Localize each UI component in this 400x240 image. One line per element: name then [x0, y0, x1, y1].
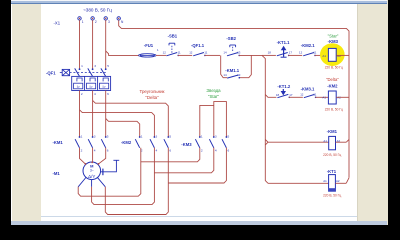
svg-text:3~: 3~: [90, 168, 94, 172]
svg-text:A1: A1: [323, 139, 327, 143]
svg-text:A1: A1: [322, 54, 326, 58]
svg-text:Треугольник: Треугольник: [140, 89, 165, 94]
svg-text:-SB2: -SB2: [226, 36, 236, 41]
svg-text:-X1: -X1: [54, 20, 61, 25]
svg-text:4: 4: [156, 149, 158, 153]
svg-text:Δ/Y: Δ/Y: [88, 174, 95, 179]
svg-text:3: 3: [94, 134, 96, 138]
svg-text:-KM1: -KM1: [53, 140, 64, 145]
svg-text:5: 5: [169, 134, 171, 138]
svg-text:11: 11: [204, 50, 207, 54]
svg-text:220 В, 50 Гц: 220 В, 50 Гц: [325, 108, 343, 112]
svg-text:A1: A1: [322, 96, 326, 100]
svg-text:3: 3: [156, 134, 158, 138]
svg-text:17: 17: [289, 93, 293, 97]
svg-text:12: 12: [189, 50, 193, 54]
svg-text:12: 12: [300, 92, 304, 96]
svg-text:1: 1: [201, 134, 203, 138]
svg-text:-KM3.1: -KM3.1: [301, 87, 315, 92]
svg-text:4: 4: [94, 149, 96, 153]
svg-text:-M1: -M1: [53, 171, 61, 176]
svg-text:5: 5: [228, 134, 230, 138]
svg-text:6: 6: [107, 92, 109, 96]
svg-text:18: 18: [268, 50, 272, 54]
svg-text:-KM2: -KM2: [121, 140, 132, 145]
svg-text:1: 1: [141, 134, 143, 138]
svg-text:1: 1: [82, 20, 84, 24]
svg-text:14: 14: [223, 73, 227, 77]
svg-text:-KM2.1: -KM2.1: [301, 43, 315, 48]
svg-text:-KT1: -KT1: [327, 169, 337, 174]
svg-text:-SB1: -SB1: [168, 34, 178, 39]
svg-text:-QF1: -QF1: [46, 71, 56, 76]
svg-text:-KM3: -KM3: [181, 142, 192, 147]
svg-text:-QF1.1: -QF1.1: [191, 43, 205, 48]
svg-text:12: 12: [299, 50, 303, 54]
svg-text:220 В, 50 Гц: 220 В, 50 Гц: [323, 194, 341, 198]
svg-text:5: 5: [107, 134, 109, 138]
svg-text:"Delta": "Delta": [326, 77, 339, 82]
svg-text:-KT1.2: -KT1.2: [277, 84, 290, 89]
svg-text:I>: I>: [90, 85, 93, 89]
svg-text:"Star": "Star": [328, 33, 339, 38]
svg-text:"Star": "Star": [208, 94, 220, 99]
svg-text:2: 2: [81, 149, 83, 153]
svg-text:N: N: [121, 20, 124, 24]
svg-text:A1: A1: [323, 179, 327, 183]
svg-text:220 В, 50 Гц: 220 В, 50 Гц: [325, 65, 343, 69]
svg-text:3: 3: [215, 134, 217, 138]
svg-text:6: 6: [107, 149, 109, 153]
svg-text:2: 2: [201, 149, 203, 153]
svg-text:3: 3: [94, 64, 96, 68]
svg-text:~380 В, 50 Гц: ~380 В, 50 Гц: [83, 8, 112, 13]
svg-text:-KM3: -KM3: [328, 39, 339, 44]
svg-text:-KM1: -KM1: [327, 129, 338, 134]
svg-text:18: 18: [276, 93, 280, 97]
svg-text:3: 3: [108, 20, 110, 24]
svg-text:1: 1: [157, 48, 159, 52]
svg-text:4: 4: [215, 149, 217, 153]
svg-text:14: 14: [223, 50, 227, 54]
svg-text:12: 12: [163, 50, 167, 54]
svg-text:-KM2: -KM2: [327, 83, 338, 88]
svg-text:1: 1: [81, 134, 83, 138]
svg-text:5: 5: [107, 64, 109, 68]
svg-text:I>: I>: [77, 85, 80, 89]
svg-text:2: 2: [95, 20, 97, 24]
svg-text:6: 6: [228, 149, 230, 153]
svg-text:Звезда: Звезда: [206, 88, 221, 93]
svg-text:"Delta": "Delta": [145, 95, 159, 100]
svg-text:I>: I>: [103, 85, 106, 89]
svg-text:A2: A2: [336, 179, 340, 183]
svg-text:11: 11: [178, 50, 181, 54]
svg-text:6: 6: [169, 149, 171, 153]
svg-text:2: 2: [81, 92, 83, 96]
svg-text:1: 1: [81, 64, 83, 68]
svg-text:-KT1.1: -KT1.1: [277, 40, 290, 45]
svg-text:17: 17: [289, 50, 293, 54]
svg-text:-FU1: -FU1: [144, 43, 154, 48]
svg-text:220 В, 50 Гц: 220 В, 50 Гц: [323, 153, 341, 157]
svg-text:4: 4: [94, 92, 96, 96]
